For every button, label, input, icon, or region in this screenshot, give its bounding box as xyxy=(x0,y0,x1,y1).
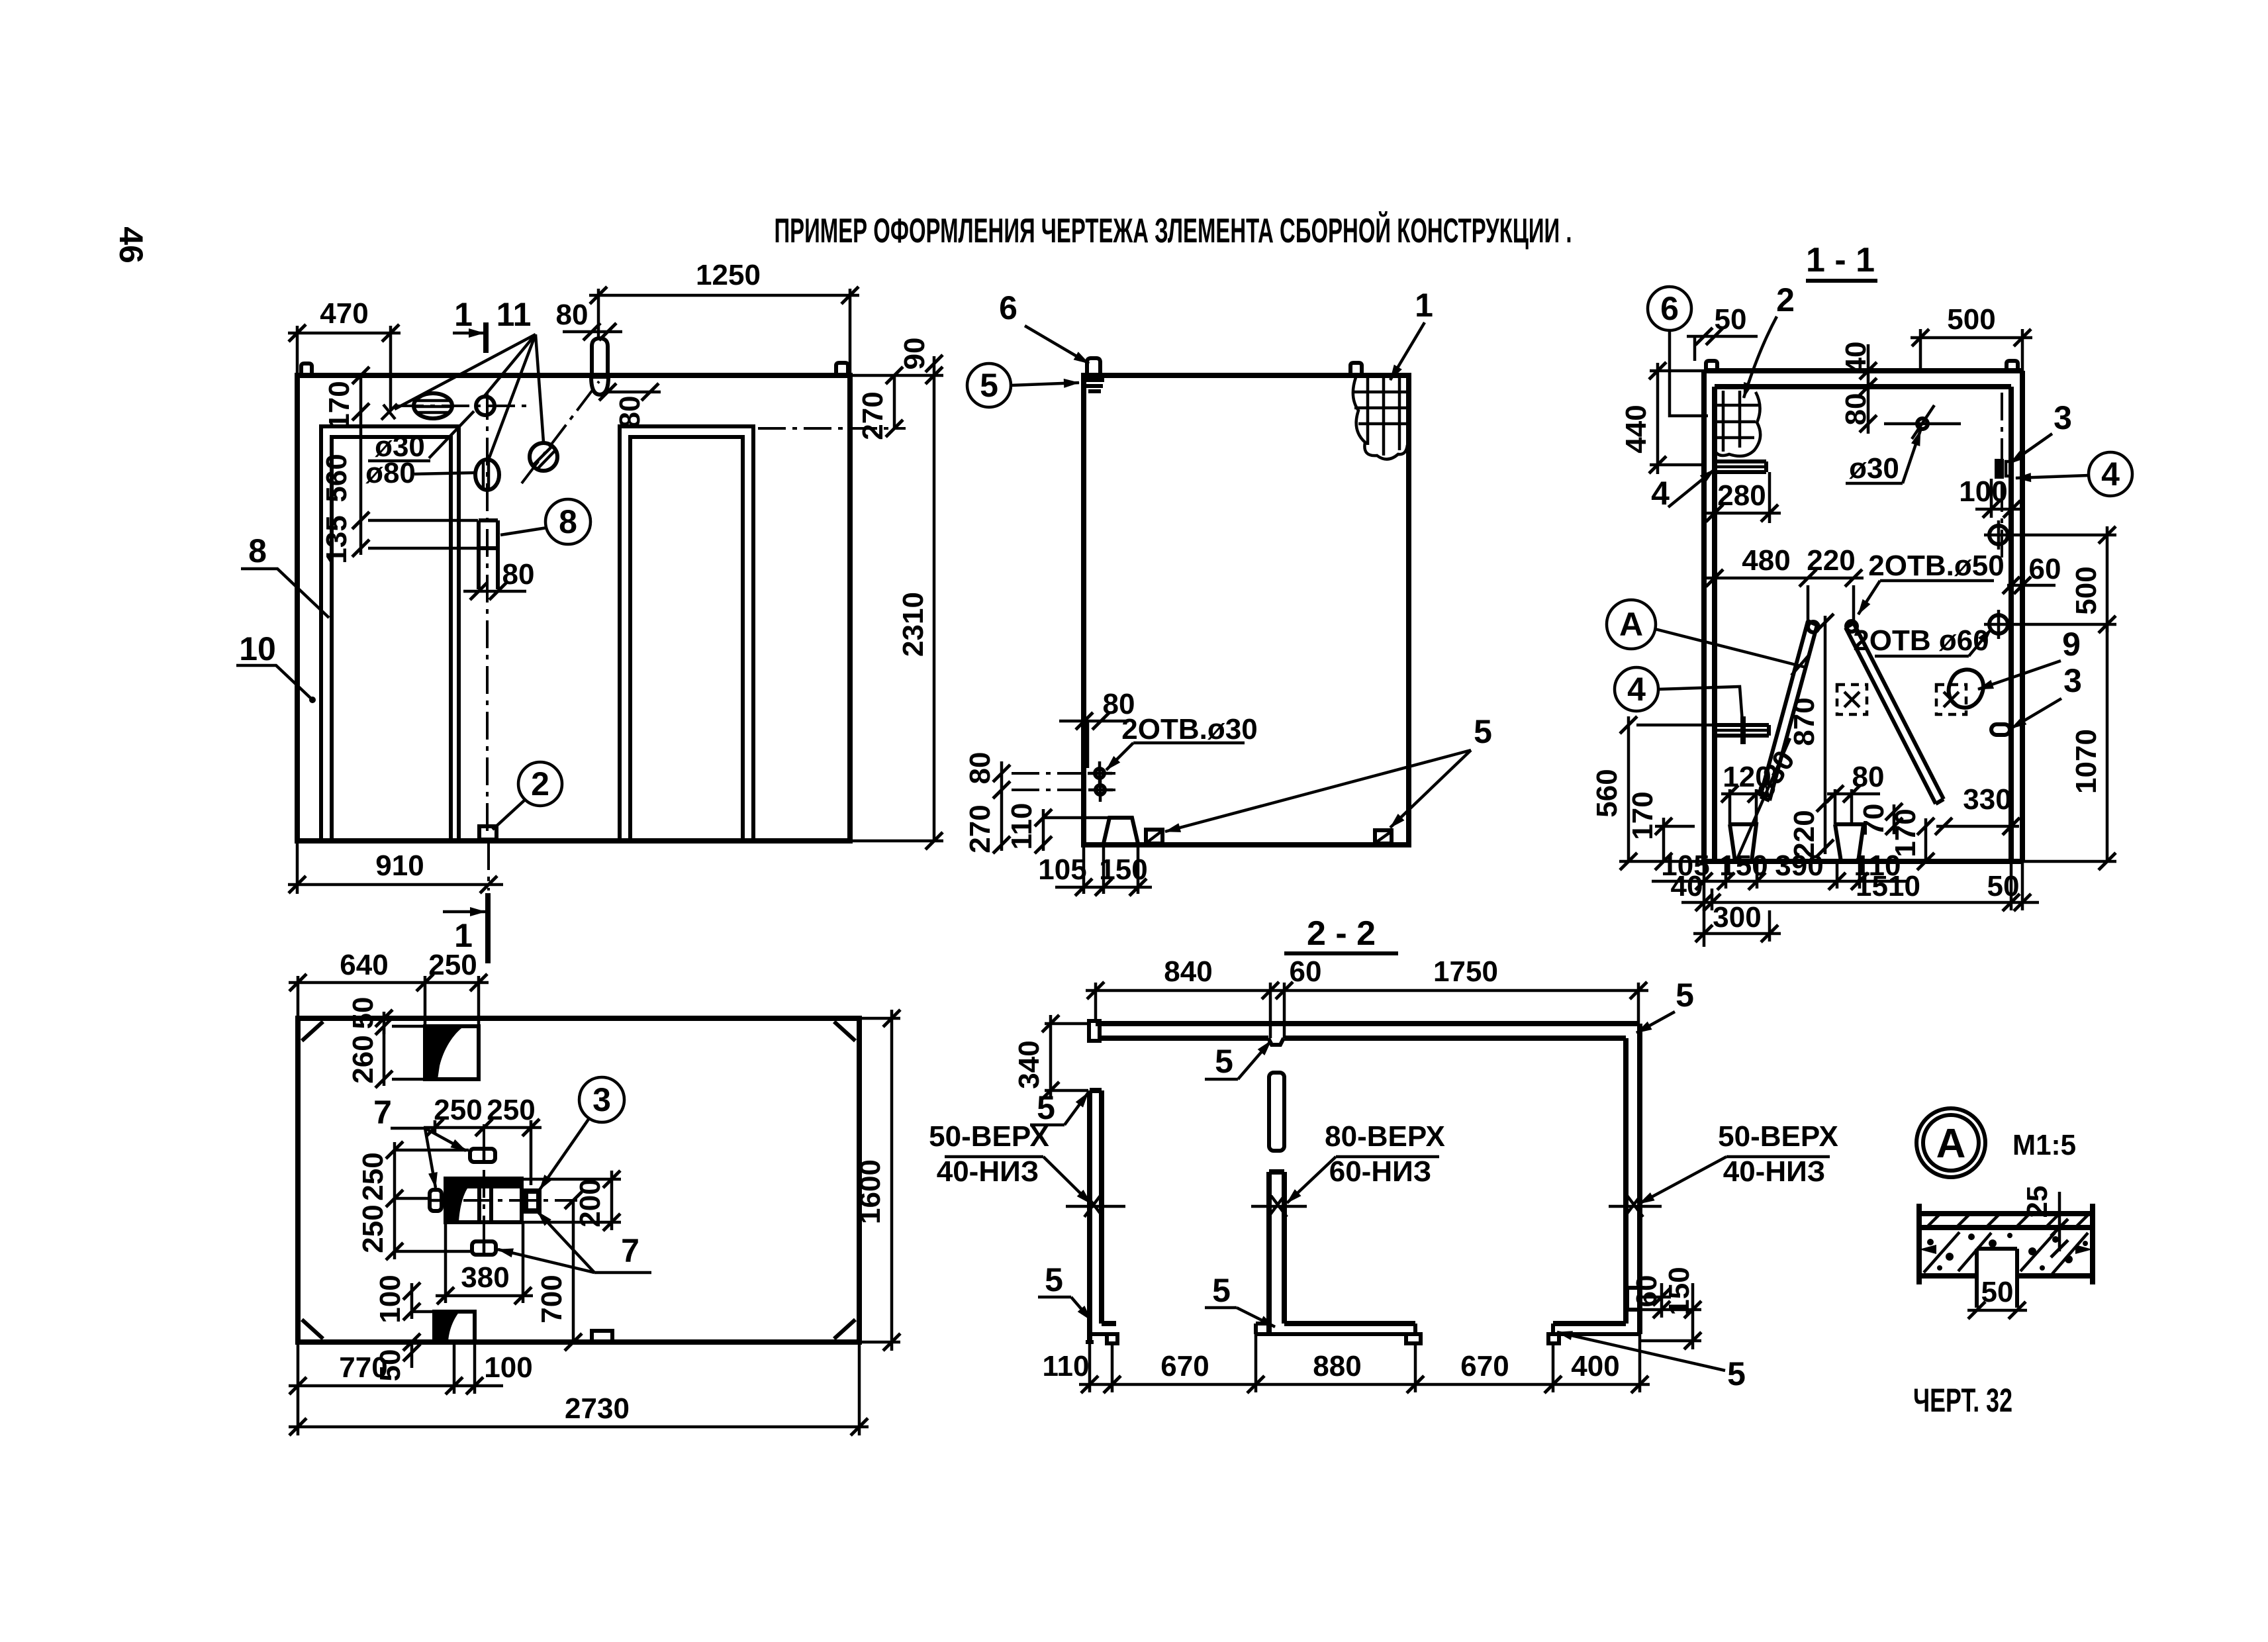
concrete dots xyxy=(1927,1239,1934,1245)
right wall xyxy=(1637,1024,1642,1334)
anchor item 2 at bottom xyxy=(479,826,496,840)
svg-text:1 - 1: 1 - 1 xyxy=(1806,241,1875,279)
svg-text:80: 80 xyxy=(502,558,535,591)
dimension 150 (rotated, right bottom) xyxy=(1640,1308,1701,1312)
svg-text:60-НИЗ: 60-НИЗ xyxy=(1329,1155,1432,1188)
plate item 3 xyxy=(526,1191,539,1211)
anchor square with diagonal (left) xyxy=(1146,830,1162,844)
dimension 120 xyxy=(1728,789,1732,824)
svg-text:100: 100 xyxy=(1959,475,2007,508)
label 2 circle xyxy=(518,762,562,806)
svg-text:60: 60 xyxy=(1630,1275,1663,1308)
dimension 1250 xyxy=(597,289,600,337)
svg-text:90: 90 xyxy=(898,338,931,370)
svg-text:220: 220 xyxy=(1807,544,1855,577)
svg-text:260: 260 xyxy=(347,1035,379,1083)
middle rib lower segment xyxy=(1266,1172,1272,1334)
svg-text:5: 5 xyxy=(1727,1355,1746,1392)
svg-text:5: 5 xyxy=(1045,1261,1063,1298)
dimensions 250 250 (left column, rotated) xyxy=(393,1142,397,1259)
svg-text:40: 40 xyxy=(1671,870,1703,902)
dimension 170 (rotated) xyxy=(359,375,363,420)
svg-text:270: 270 xyxy=(857,391,889,440)
svg-text:5: 5 xyxy=(1215,1043,1233,1080)
diagonal centerline to loop xyxy=(522,381,599,483)
svg-text:11: 11 xyxy=(496,296,532,333)
svg-text:2ОТВ.ø50: 2ОТВ.ø50 xyxy=(1868,550,2004,582)
svg-text:380: 380 xyxy=(461,1261,509,1294)
svg-text:40-НИЗ: 40-НИЗ xyxy=(937,1155,1039,1188)
svg-text:А: А xyxy=(1619,606,1643,643)
small hole with cross xyxy=(476,397,495,415)
anchor square with diagonal (right) xyxy=(1375,830,1392,844)
loop anchor bulb below edge xyxy=(591,377,608,395)
bottom recess (trapezoid) xyxy=(1043,816,1111,820)
mounting foot right xyxy=(1835,824,1864,861)
central embedded channel xyxy=(446,1179,522,1222)
dashed cut square left xyxy=(1837,685,1867,714)
svg-text:500: 500 xyxy=(1947,303,1995,336)
svg-text:6: 6 xyxy=(1660,290,1679,327)
lifting loop item 6 top-left xyxy=(1087,358,1100,375)
dimension 280 xyxy=(1768,472,1772,523)
svg-text:770: 770 xyxy=(339,1351,387,1384)
svg-text:470: 470 xyxy=(320,297,368,330)
svg-text:ø80: ø80 xyxy=(365,457,416,489)
hole d30 in top wall xyxy=(1917,418,1928,429)
small plate on bottom edge xyxy=(592,1331,612,1342)
svg-text:480: 480 xyxy=(1742,544,1790,577)
svg-text:5: 5 xyxy=(1212,1272,1231,1309)
svg-text:170: 170 xyxy=(1627,791,1659,840)
dimension 50 xyxy=(1687,335,1758,338)
corner chamfer marks xyxy=(302,1022,323,1041)
top wall band xyxy=(1096,1021,1640,1026)
svg-text:340: 340 xyxy=(1013,1040,1045,1088)
svg-text:46: 46 xyxy=(113,226,150,264)
concrete hatch strokes xyxy=(1924,1232,1960,1273)
svg-text:870: 870 xyxy=(1788,697,1820,746)
joint notch xyxy=(1268,1038,1284,1045)
embedded oval item (horizontal hatch) xyxy=(414,393,452,418)
svg-text:2ОТВ.ø30: 2ОТВ.ø30 xyxy=(1121,713,1257,746)
lifting loop top-right xyxy=(1350,363,1362,375)
svg-text:50-ВЕРХ: 50-ВЕРХ xyxy=(1718,1120,1838,1153)
dimension 135 (rotated) xyxy=(359,520,363,555)
svg-text:100: 100 xyxy=(484,1351,532,1384)
dimension 260 (rotated) xyxy=(383,1026,386,1086)
svg-text:2 - 2: 2 - 2 xyxy=(1307,914,1376,953)
dimension 220 (rotated) xyxy=(1824,803,1827,854)
svg-text:8: 8 xyxy=(559,503,577,540)
svg-text:1070: 1070 xyxy=(2070,729,2103,794)
plug hole lower right xyxy=(1989,615,2008,634)
thickness mark left stub xyxy=(1066,1205,1125,1208)
svg-text:1750: 1750 xyxy=(1433,955,1498,988)
small plate 7 (left) xyxy=(430,1190,442,1211)
svg-text:50-ВЕРХ: 50-ВЕРХ xyxy=(929,1120,1049,1153)
keyway slot xyxy=(1975,1249,1979,1308)
svg-text:250: 250 xyxy=(487,1094,535,1126)
section mark 1 (top) xyxy=(483,322,489,353)
dimension 25 (rotated) xyxy=(2058,1192,2061,1251)
svg-text:50: 50 xyxy=(1987,870,2020,902)
svg-text:ø30: ø30 xyxy=(1849,452,1899,485)
svg-text:40-НИЗ: 40-НИЗ xyxy=(1723,1155,1826,1188)
dimensions 40 and 80 (rotated) at hole xyxy=(1867,344,1870,434)
blob item 9 xyxy=(1949,669,1983,707)
svg-text:А: А xyxy=(1936,1121,1966,1167)
left stub foot xyxy=(1102,1321,1116,1326)
bottom dim row 1: 105 150 390 110 xyxy=(1703,861,1706,947)
svg-text:10: 10 xyxy=(239,630,276,667)
svg-text:560: 560 xyxy=(320,454,353,502)
embedded plate item 4 (upper left) xyxy=(1716,459,1766,463)
mesh item 2 (top-left inside) xyxy=(1722,391,1725,452)
left wall stub xyxy=(1087,1090,1092,1342)
small plate 7 (upper) xyxy=(470,1149,495,1162)
dimension 560 (rotated) xyxy=(359,420,363,520)
detail marker circle A xyxy=(1916,1108,1985,1177)
lifting loop right xyxy=(2007,361,2018,371)
detail circle A xyxy=(1607,600,1656,649)
dimension 80 under strip xyxy=(463,590,526,593)
svg-text:110: 110 xyxy=(1006,803,1038,850)
dimension 80 right of loop (rotated) xyxy=(608,391,661,394)
svg-text:5: 5 xyxy=(980,367,998,404)
svg-text:200: 200 xyxy=(574,1179,606,1227)
lifting loop left xyxy=(1706,361,1717,371)
svg-text:50: 50 xyxy=(347,997,379,1030)
svg-text:2310: 2310 xyxy=(897,592,929,657)
svg-text:135: 135 xyxy=(320,515,353,563)
top dimensions 840 60 1750 xyxy=(1094,983,1098,1021)
vertical centerline x736 xyxy=(486,392,489,840)
svg-text:300: 300 xyxy=(1713,901,1761,934)
plug hole upper right xyxy=(1989,526,2008,544)
dimension 440 (rotated) xyxy=(1650,369,1704,373)
svg-text:2: 2 xyxy=(531,765,549,802)
keyway step (bottom-left, with black wedge) xyxy=(434,1312,475,1342)
keyway detail top (with black wedge) xyxy=(425,1026,479,1079)
svg-text:40: 40 xyxy=(1840,342,1872,374)
extension lines to strip xyxy=(368,519,478,522)
svg-text:6: 6 xyxy=(999,289,1017,326)
svg-text:150: 150 xyxy=(1719,849,1768,882)
dimension 90 (rotated, top right) xyxy=(933,356,936,375)
svg-text:80: 80 xyxy=(556,299,589,331)
strut left (diagonal brace) xyxy=(1760,621,1808,797)
svg-text:170: 170 xyxy=(323,381,355,429)
dimensions 480 220 xyxy=(1807,585,1810,621)
svg-text:ЧЕРТ. 32: ЧЕРТ. 32 xyxy=(1913,1382,2012,1419)
dimension 1600 (rotated) xyxy=(859,1017,900,1020)
dimension 60 (rotated, right bottom) xyxy=(1640,1296,1671,1299)
svg-text:670: 670 xyxy=(1160,1350,1209,1382)
svg-text:9: 9 xyxy=(2062,626,2081,663)
lifting loop item 7 (middle, above edge) xyxy=(592,338,608,375)
svg-text:670: 670 xyxy=(1460,1350,1509,1382)
dimension 700 (rotated) xyxy=(572,1200,575,1342)
dimension 560 (rotated) xyxy=(1636,724,1715,727)
svg-text:250: 250 xyxy=(428,949,477,981)
dimensions 250 250 (middle top) xyxy=(434,1120,437,1134)
dashed cut square right xyxy=(1936,685,1966,714)
svg-text:5: 5 xyxy=(1676,977,1694,1014)
dimension 270 left (rotated) xyxy=(1000,790,1004,851)
middle bottom flange xyxy=(1284,1321,1415,1326)
svg-text:390: 390 xyxy=(1775,849,1823,882)
holes 2 holes d30 xyxy=(1095,769,1104,778)
dimension 80 (top, horizontal offset of holes) xyxy=(1059,720,1129,723)
label 4 circle (right) xyxy=(2089,452,2132,496)
svg-text:500: 500 xyxy=(2070,566,2103,614)
anchor plate item 3 at right wall xyxy=(1995,459,2004,479)
svg-text:М1:5: М1:5 xyxy=(2012,1129,2076,1161)
svg-text:280: 280 xyxy=(1717,479,1766,512)
middle rib upper segment xyxy=(1269,1073,1284,1151)
dimension 80 left (rotated) xyxy=(1012,772,1115,775)
door opening 2 inner xyxy=(630,437,743,840)
dimensions 770 100 (bottom) xyxy=(297,1342,300,1394)
thickness mark right wall xyxy=(1609,1205,1662,1208)
svg-text:105: 105 xyxy=(1038,853,1086,886)
dimension 1070 (rotated) xyxy=(2106,624,2109,861)
dimension 270 right (rotated) xyxy=(893,375,896,428)
dimension 910 xyxy=(296,841,299,894)
svg-text:5: 5 xyxy=(1474,713,1492,750)
svg-text:3: 3 xyxy=(592,1081,611,1118)
top screed hatch xyxy=(1926,1214,1940,1228)
svg-text:1: 1 xyxy=(454,296,473,333)
svg-text:700: 700 xyxy=(536,1275,568,1323)
mounting foot left xyxy=(1730,824,1756,861)
svg-text:60: 60 xyxy=(2029,553,2061,585)
dimension 70 (rotated) xyxy=(1893,804,1896,834)
dimension 50 xyxy=(1967,1309,2027,1312)
lifting loop top-right xyxy=(836,363,848,375)
lifting loop top-left xyxy=(301,363,312,375)
svg-text:150: 150 xyxy=(1099,853,1147,886)
small plate 7 (lower) xyxy=(472,1241,496,1255)
svg-text:2ОТВ ø60: 2ОТВ ø60 xyxy=(1853,624,1989,657)
dimension 50 (rotated) xyxy=(383,1012,386,1034)
reinforcing mesh item 1 (top-right corner) xyxy=(1366,376,1370,445)
dimension 380 xyxy=(444,1222,448,1303)
svg-text:80: 80 xyxy=(614,396,646,428)
bottom dim row 2: 40 1510 50 xyxy=(2021,861,2024,910)
svg-text:2: 2 xyxy=(1776,281,1795,318)
label 3 circle xyxy=(579,1077,624,1122)
door opening 1 outer xyxy=(321,426,459,840)
svg-text:1510: 1510 xyxy=(1856,870,1920,902)
svg-text:330: 330 xyxy=(1963,783,2011,816)
svg-text:150: 150 xyxy=(1663,1267,1695,1315)
svg-text:8: 8 xyxy=(248,532,267,569)
svg-text:80: 80 xyxy=(964,752,996,785)
dimension 60 xyxy=(2007,584,2055,587)
panel outline (rear elevation) xyxy=(1084,375,1409,845)
embedded oval item (diagonal hatch) xyxy=(530,443,557,471)
slab section outline xyxy=(1919,1211,2093,1216)
svg-text:400: 400 xyxy=(1571,1350,1619,1382)
svg-text:ПРИМЕР ОФОРМЛЕНИЯ ЧЕРТЕЖА ЗЛЕМ: ПРИМЕР ОФОРМЛЕНИЯ ЧЕРТЕЖА ЗЛЕМЕНТА СБОРН… xyxy=(775,211,1572,250)
svg-text:4: 4 xyxy=(1651,475,1670,512)
svg-text:880: 880 xyxy=(1313,1350,1361,1382)
strut right (diagonal brace) xyxy=(1854,623,1944,799)
joint strip item 8 xyxy=(477,520,481,589)
dimension 170 (rotated, at foot) xyxy=(1924,818,1928,861)
svg-text:70: 70 xyxy=(1858,804,1890,836)
dimension 340 (rotated) xyxy=(1045,1022,1091,1026)
svg-text:110: 110 xyxy=(1043,1350,1090,1382)
dimension 330 xyxy=(1936,825,2019,828)
dimension 100 xyxy=(1990,479,1993,518)
svg-text:560: 560 xyxy=(1591,769,1623,817)
label 5 circle xyxy=(967,363,1011,407)
bottom dim row 3: 300 xyxy=(1768,910,1772,942)
svg-text:640: 640 xyxy=(340,949,388,981)
svg-text:270: 270 xyxy=(964,804,996,853)
door opening 1 inner xyxy=(332,437,451,840)
section walls outline xyxy=(1704,368,2022,373)
anchor point X xyxy=(381,404,397,420)
dimension 110 (rotated) xyxy=(1042,809,1045,851)
dimension 80 at loop xyxy=(563,330,622,334)
svg-text:4: 4 xyxy=(1627,671,1646,708)
dimension 200 (rotated) xyxy=(523,1178,621,1181)
thickness mark middle rib xyxy=(1251,1205,1307,1208)
svg-text:50: 50 xyxy=(1715,303,1747,336)
dimension 470 xyxy=(296,326,299,375)
label 4 circle (lower left) xyxy=(1615,667,1658,711)
horizontal centerline through holes xyxy=(396,405,526,407)
svg-text:250: 250 xyxy=(434,1094,482,1126)
block at right wall bottom xyxy=(1627,1288,1640,1310)
svg-text:60: 60 xyxy=(1290,955,1322,988)
svg-text:7: 7 xyxy=(373,1094,392,1131)
dimension 500 (top) xyxy=(1919,329,1922,371)
right bottom flange xyxy=(1553,1321,1626,1326)
svg-text:250: 250 xyxy=(357,1204,389,1253)
svg-text:80-ВЕРХ: 80-ВЕРХ xyxy=(1325,1120,1445,1153)
dimension 870 (rotated) xyxy=(1824,616,1827,803)
dimensions 105 150 xyxy=(1082,845,1086,894)
svg-text:4: 4 xyxy=(2101,456,2120,493)
bottom dimensions 110 670 880 670 400 xyxy=(1088,1342,1092,1392)
dimension 170 (rotated, left) xyxy=(1655,825,1695,828)
left end cap xyxy=(1089,1021,1100,1041)
door opening 2 outer xyxy=(620,426,753,840)
svg-text:100: 100 xyxy=(374,1275,406,1323)
dimension 2730 xyxy=(858,1342,861,1435)
dimension 2310 (rotated) xyxy=(850,374,943,377)
svg-text:50: 50 xyxy=(1981,1276,2014,1308)
loop anchor marks below edge xyxy=(1085,378,1104,382)
dimension 100 (rotated, step) xyxy=(410,1283,414,1319)
svg-text:3: 3 xyxy=(2054,399,2072,436)
embedded oval item (vertical hatch) xyxy=(475,459,499,490)
svg-text:25: 25 xyxy=(2021,1186,2054,1218)
svg-text:910: 910 xyxy=(375,849,424,882)
dimension 80 (right foot) xyxy=(1834,789,1837,824)
end break bars xyxy=(1916,1204,1922,1284)
svg-text:250: 250 xyxy=(357,1152,389,1200)
svg-text:440: 440 xyxy=(1620,405,1652,453)
svg-text:1600: 1600 xyxy=(854,1159,886,1224)
dimension 50 (rotated, below) xyxy=(410,1342,414,1368)
dimension 500 right (rotated) xyxy=(2106,526,2109,632)
plan view outline xyxy=(298,1018,859,1342)
panel outline (front elevation) xyxy=(297,375,850,841)
svg-text:80: 80 xyxy=(1852,761,1885,793)
svg-text:840: 840 xyxy=(1164,955,1212,988)
svg-text:2730: 2730 xyxy=(565,1392,630,1425)
svg-text:7: 7 xyxy=(621,1232,639,1269)
slot item 3 at right wall xyxy=(1991,724,2010,735)
svg-text:3: 3 xyxy=(2063,662,2082,699)
dimensions 640 250 (top) xyxy=(297,976,300,1018)
section mark 1 (bottom) xyxy=(485,893,491,963)
label 8 (strip) circle xyxy=(545,499,591,544)
svg-text:1: 1 xyxy=(1415,287,1433,324)
embedded plate item 4 (lower left) xyxy=(1716,723,1769,727)
label 6 circle xyxy=(1648,287,1691,330)
svg-text:80: 80 xyxy=(1840,393,1872,426)
svg-text:1250: 1250 xyxy=(696,259,761,291)
